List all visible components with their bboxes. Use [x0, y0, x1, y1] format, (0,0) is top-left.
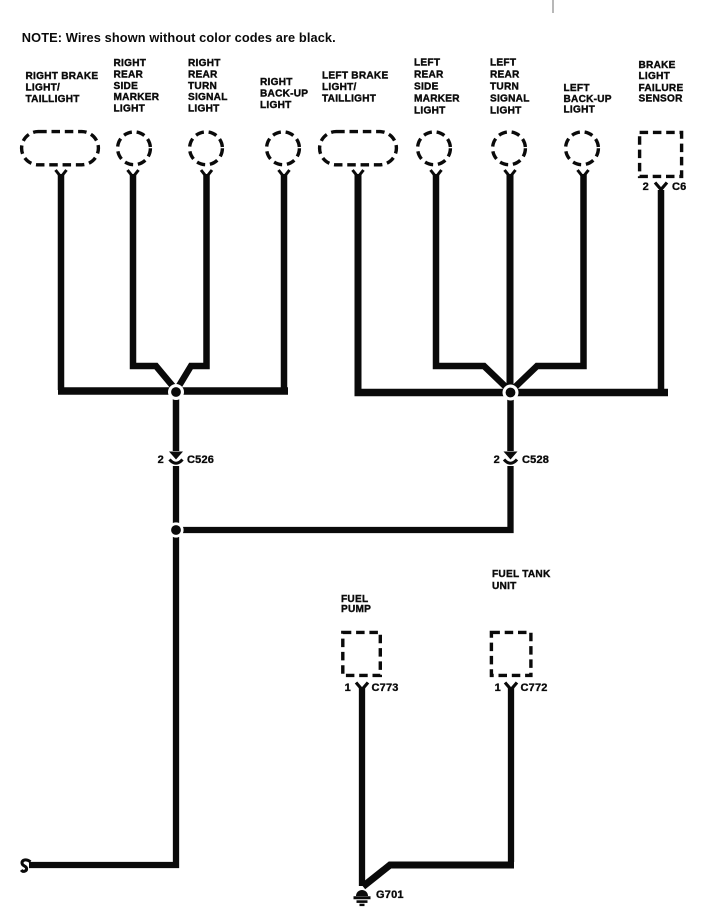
- connector C528 labels: [494, 454, 549, 466]
- connector C772 labels: [495, 682, 548, 694]
- svg-text:TURN: TURN: [188, 81, 217, 92]
- svg-text:C772: C772: [521, 682, 548, 694]
- svg-text:LIGHT/: LIGHT/: [322, 82, 357, 93]
- lamp right brake light/taillight (dashed stadium): [22, 132, 99, 165]
- junction dot right group: [506, 388, 516, 398]
- junction dot left vertical / cross-link: [171, 525, 181, 535]
- svg-text:TURN: TURN: [490, 82, 519, 93]
- terminal fork under circle 2: [128, 170, 139, 177]
- left vertical above C526: [173, 392, 180, 451]
- svg-text:BRAKE: BRAKE: [639, 60, 676, 71]
- svg-text:TAILLIGHT: TAILLIGHT: [322, 94, 377, 105]
- svg-text:MARKER: MARKER: [414, 94, 460, 105]
- lamp right back-up light (dashed circle): [267, 132, 300, 165]
- svg-text:SIGNAL: SIGNAL: [188, 92, 228, 103]
- wire 8: left back-up down with jog: [511, 174, 584, 391]
- svg-text:BACK-UP: BACK-UP: [260, 89, 308, 100]
- svg-text:1: 1: [495, 682, 501, 694]
- svg-text:LIGHT: LIGHT: [188, 104, 220, 115]
- svg-text:SIDE: SIDE: [114, 81, 139, 92]
- svg-text:SIDE: SIDE: [414, 82, 439, 93]
- label BRAKE LIGHT FAILURE SENSOR: [639, 60, 684, 105]
- connector C528 male triangle: [504, 452, 518, 460]
- svg-text:C6: C6: [672, 181, 686, 193]
- svg-text:LIGHT: LIGHT: [490, 106, 522, 117]
- lamp left rear side marker light (dashed circle): [418, 132, 451, 165]
- bus left group horizontal: [58, 387, 288, 395]
- connector C526 labels: [158, 454, 214, 466]
- label LEFT REAR TURN SIGNAL LIGHT: [490, 58, 530, 117]
- label LEFT BACK-UP LIGHT: [564, 83, 612, 116]
- svg-text:RIGHT BRAKE: RIGHT BRAKE: [26, 71, 99, 82]
- junction halo right: [503, 385, 519, 401]
- junction dot left group: [171, 387, 181, 397]
- label RIGHT REAR SIDE MARKER LIGHT: [114, 58, 160, 115]
- right vertical C528 down, corner, cross-link to left vertical: [176, 466, 511, 530]
- svg-text:C773: C773: [372, 682, 399, 694]
- lamp left back-up light (dashed circle): [566, 132, 599, 165]
- lamp right rear turn signal light (dashed circle): [190, 132, 223, 165]
- lamp left rear turn signal light (dashed circle): [493, 132, 526, 165]
- wire 1: right brake light down: [58, 174, 65, 390]
- label RIGHT BACK-UP LIGHT: [260, 77, 308, 111]
- connector C526 male triangle: [169, 452, 183, 460]
- terminal fork under stadium 1: [56, 170, 67, 177]
- wire 2: right side marker down with jog: [133, 174, 176, 390]
- connector C528 female cup: [504, 460, 517, 464]
- junction halo mid-left: [168, 522, 183, 537]
- wire 3: right turn signal down with jog: [177, 174, 207, 390]
- connector C773 fork: [356, 683, 368, 690]
- svg-text:LIGHT: LIGHT: [114, 104, 146, 115]
- svg-text:C528: C528: [522, 454, 549, 466]
- svg-text:RIGHT: RIGHT: [114, 58, 147, 69]
- terminal fork under circle 3: [201, 170, 212, 177]
- bus right group horizontal: [355, 389, 669, 397]
- svg-text:BACK-UP: BACK-UP: [564, 94, 612, 105]
- fuel pump (dashed box): [343, 632, 381, 675]
- svg-text:RIGHT: RIGHT: [260, 77, 293, 88]
- connector C773 labels: [345, 682, 399, 694]
- wire 4: right back-up down: [281, 174, 288, 390]
- connector C772 fork: [505, 683, 517, 690]
- terminal fork under circle 7: [505, 170, 516, 177]
- scan artifact mark top right: [552, 0, 554, 13]
- svg-text:LIGHT: LIGHT: [414, 106, 446, 117]
- terminal fork under circle 4: [279, 170, 290, 177]
- svg-text:LIGHT: LIGHT: [260, 100, 292, 111]
- ground G701 symbol: [354, 890, 371, 905]
- svg-text:LEFT: LEFT: [564, 83, 591, 94]
- terminal fork under circle 8: [578, 170, 589, 177]
- svg-text:G701: G701: [376, 889, 404, 901]
- svg-text:2: 2: [494, 454, 500, 466]
- svg-text:1: 1: [345, 682, 351, 694]
- wire 7: left turn signal straight down: [507, 174, 514, 396]
- svg-text:2: 2: [643, 181, 649, 193]
- svg-text:PUMP: PUMP: [341, 604, 371, 615]
- right vertical above C528: [507, 396, 514, 451]
- wire 6: left side marker down with jog: [436, 174, 510, 391]
- svg-text:SIGNAL: SIGNAL: [490, 94, 530, 105]
- svg-text:LIGHT: LIGHT: [564, 105, 596, 116]
- left vertical C526 to bottom corner and bottom-left run: [29, 466, 176, 865]
- svg-text:REAR: REAR: [114, 69, 144, 80]
- label LEFT REAR SIDE MARKER LIGHT: [414, 58, 460, 117]
- wire fuel pump down to ground: [359, 687, 365, 886]
- svg-text:LEFT: LEFT: [414, 58, 441, 69]
- svg-text:UNIT: UNIT: [492, 581, 517, 592]
- wire fuel tank unit down: [508, 687, 514, 862]
- svg-text:SENSOR: SENSOR: [639, 94, 684, 105]
- svg-text:TAILLIGHT: TAILLIGHT: [26, 94, 81, 105]
- wire fuel bottom horizontal and diagonal to ground: [363, 865, 514, 887]
- svg-text:REAR: REAR: [490, 70, 520, 81]
- svg-text:REAR: REAR: [188, 69, 218, 80]
- continuation hook at bottom-left wire end: [21, 860, 30, 871]
- svg-text:LIGHT: LIGHT: [639, 71, 671, 82]
- svg-text:FUEL TANK: FUEL TANK: [492, 569, 551, 580]
- connector C526 female cup: [170, 460, 183, 464]
- fuel tank unit (dashed box): [491, 632, 531, 675]
- svg-text:RIGHT: RIGHT: [188, 58, 221, 69]
- connector C6 fork: [655, 183, 667, 190]
- junction halo left: [168, 384, 184, 400]
- svg-text:MARKER: MARKER: [114, 92, 160, 103]
- label LEFT BRAKE LIGHT/TAILLIGHT: [322, 71, 388, 105]
- label FUEL TANK UNIT: [492, 569, 551, 592]
- svg-text:FAILURE: FAILURE: [639, 83, 684, 94]
- terminal fork under stadium 5: [353, 170, 364, 177]
- wire 5: left brake light down: [355, 174, 362, 392]
- svg-text:NOTE: Wires shown without colo: NOTE: Wires shown without color codes ar…: [22, 30, 336, 45]
- lamp left brake light/taillight (dashed stadium): [320, 132, 397, 165]
- connector C6 labels: [643, 181, 687, 193]
- wire 9: brake failure sensor down: [658, 190, 665, 392]
- label FUEL PUMP: [341, 594, 371, 615]
- svg-text:REAR: REAR: [414, 70, 444, 81]
- svg-text:LEFT BRAKE: LEFT BRAKE: [322, 71, 388, 82]
- svg-text:C526: C526: [187, 454, 214, 466]
- lamp right rear side marker light (dashed circle): [118, 132, 151, 165]
- terminal fork under circle 6: [431, 170, 442, 177]
- svg-text:LEFT: LEFT: [490, 58, 517, 69]
- svg-text:LIGHT/: LIGHT/: [26, 83, 61, 94]
- brake light failure sensor (dashed box): [640, 132, 682, 176]
- label RIGHT REAR TURN SIGNAL LIGHT: [188, 58, 228, 115]
- label RIGHT BRAKE LIGHT/TAILLIGHT: [26, 71, 99, 105]
- svg-text:2: 2: [158, 454, 164, 466]
